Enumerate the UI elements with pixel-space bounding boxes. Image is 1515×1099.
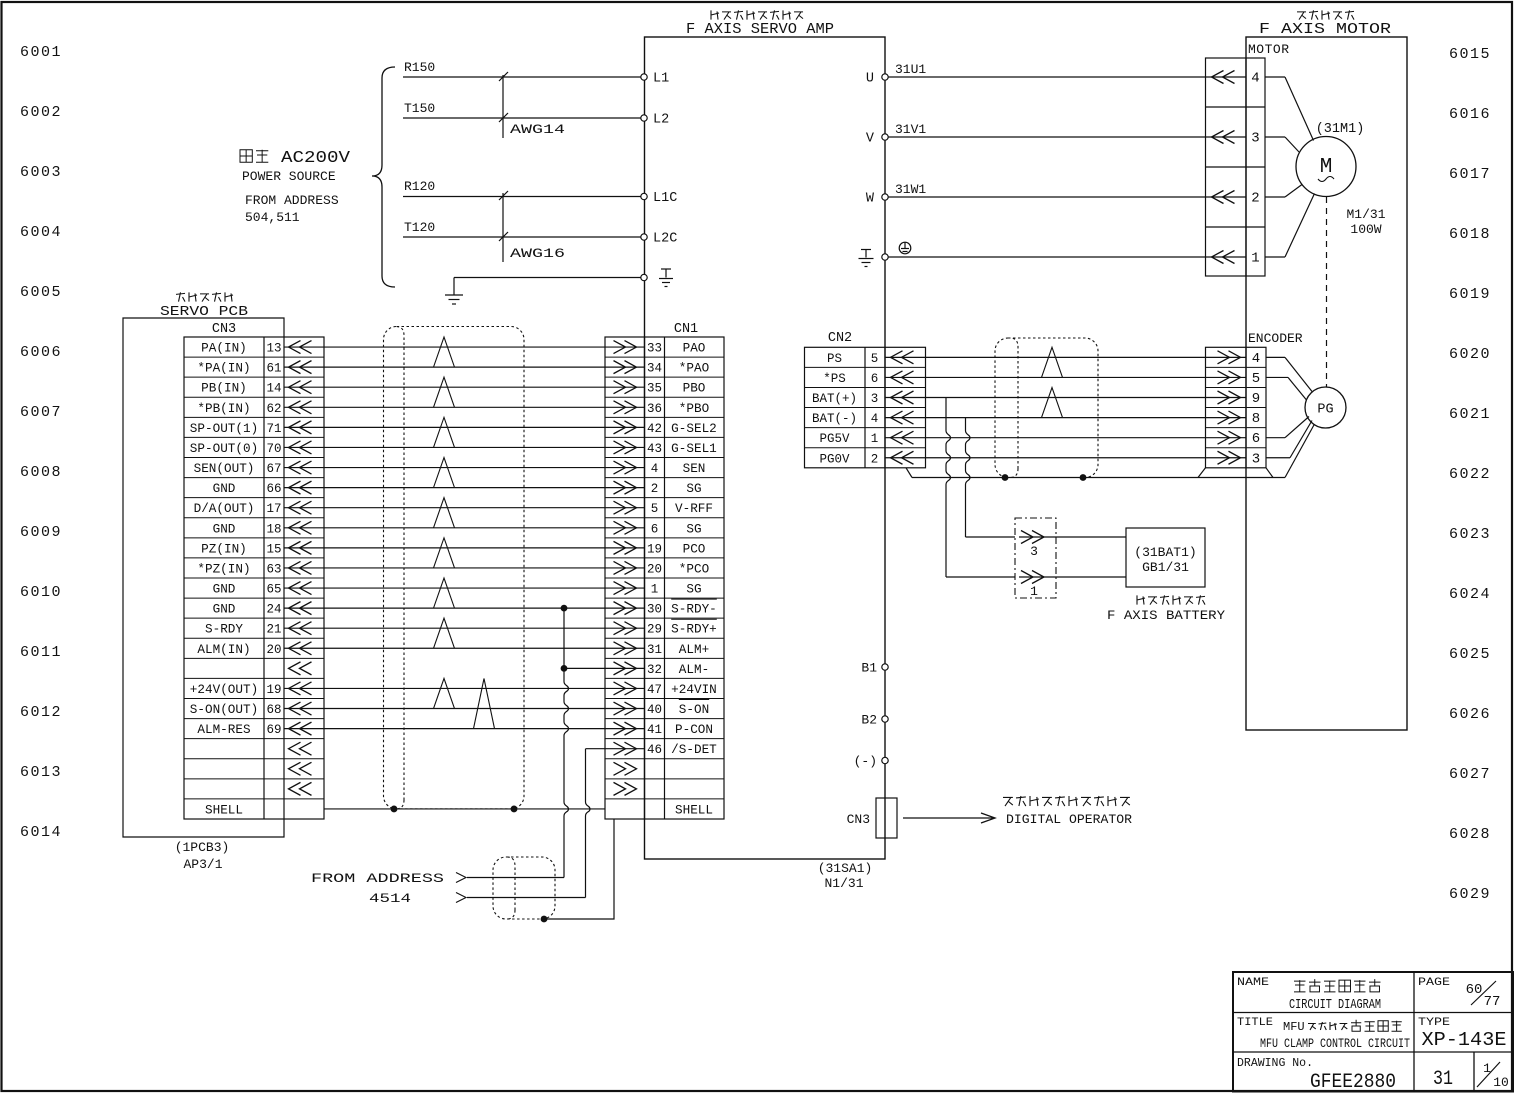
terminal L2 xyxy=(641,113,669,128)
svg-text:6025: 6025 xyxy=(1449,646,1491,663)
svg-text:SEN: SEN xyxy=(683,462,706,476)
motor label xyxy=(1259,21,1391,38)
battery connector box xyxy=(1015,518,1056,598)
svg-text:6003: 6003 xyxy=(20,164,62,181)
svg-text:5: 5 xyxy=(1252,371,1260,387)
svg-text:70: 70 xyxy=(266,442,281,456)
svg-text:PG0V: PG0V xyxy=(819,452,850,466)
svg-text:31: 31 xyxy=(647,643,662,657)
svg-text:GND: GND xyxy=(213,522,236,536)
label PAGE xyxy=(1418,977,1450,989)
svg-text:DRAWING No.: DRAWING No. xyxy=(1237,1056,1313,1070)
label 31M1 xyxy=(1316,122,1365,137)
motor pin 2 label xyxy=(1251,191,1259,207)
svg-text:MFU CLAMP CONTROL CIRCUIT: MFU CLAMP CONTROL CIRCUIT xyxy=(1260,1036,1410,1051)
svg-text:3: 3 xyxy=(871,392,879,406)
motor pin 1 label xyxy=(1251,251,1259,267)
wire *PS to encoder5 xyxy=(885,376,1246,378)
svg-text:33: 33 xyxy=(647,342,662,356)
sheet fraction 1/10 xyxy=(1477,1061,1509,1090)
svg-text:5: 5 xyxy=(871,352,879,366)
svg-text:M: M xyxy=(1320,156,1333,179)
label POWER SOURCE xyxy=(242,169,336,184)
label 31U1 xyxy=(895,62,926,77)
svg-text:BAT(+): BAT(+) xyxy=(812,392,857,406)
svg-text:4514: 4514 xyxy=(369,891,411,906)
svg-text:*PZ(IN): *PZ(IN) xyxy=(197,562,250,576)
cable group AWG16 xyxy=(499,191,508,262)
wire V to motor pin xyxy=(888,136,1246,138)
terminal U xyxy=(866,72,888,87)
terminal V xyxy=(866,132,888,147)
svg-text:SHELL: SHELL xyxy=(675,803,713,817)
svg-text:5: 5 xyxy=(651,502,659,516)
svg-text:(-): (-) xyxy=(854,754,877,769)
svg-text:2: 2 xyxy=(1251,191,1259,207)
node shield right xyxy=(511,806,518,813)
svg-text:6005: 6005 xyxy=(20,284,62,301)
motor connector MOTOR table xyxy=(1206,58,1266,276)
svg-text:XP-143E: XP-143E xyxy=(1422,1029,1507,1051)
svg-text:6021: 6021 xyxy=(1449,406,1491,423)
svg-text:M1/31: M1/31 xyxy=(1346,207,1385,222)
terminal L2C xyxy=(641,232,678,247)
right zone labels 6015-6029 xyxy=(1449,46,1491,903)
svg-text:CN3: CN3 xyxy=(212,322,236,337)
svg-text:ENCODER: ENCODER xyxy=(1248,331,1303,346)
svg-text:AP3/1: AP3/1 xyxy=(183,857,222,872)
svg-text:POWER SOURCE: POWER SOURCE xyxy=(242,169,336,184)
label XP-143E xyxy=(1422,1029,1507,1051)
battery pin1 arrow xyxy=(1021,571,1044,600)
svg-text:6020: 6020 xyxy=(1449,346,1491,363)
svg-text:68: 68 xyxy=(266,703,281,717)
svg-text:4: 4 xyxy=(1252,351,1260,367)
svg-text:L2C: L2C xyxy=(653,232,677,247)
svg-text:6023: 6023 xyxy=(1449,526,1491,543)
svg-text:AWG14: AWG14 xyxy=(510,122,565,137)
svg-text:CIRCUIT DIAGRAM: CIRCUIT DIAGRAM xyxy=(1289,998,1381,1013)
svg-text:SHELL: SHELL xyxy=(205,803,243,817)
encoder pin 9 arrow xyxy=(1218,391,1241,404)
label R150 xyxy=(404,60,435,75)
svg-text:6007: 6007 xyxy=(20,404,62,421)
svg-text:6018: 6018 xyxy=(1449,226,1491,243)
svg-text:L2: L2 xyxy=(653,113,669,128)
svg-text:L1: L1 xyxy=(653,72,669,87)
wire SHELL CN3 to CN1 xyxy=(324,808,605,810)
label DIGITAL OPERATOR xyxy=(1006,812,1132,827)
svg-text:42: 42 xyxy=(647,422,662,436)
svg-text:D/A(OUT): D/A(OUT) xyxy=(194,502,255,516)
label AWG14 xyxy=(510,122,565,137)
svg-text:R120: R120 xyxy=(404,179,435,194)
wire U to motor pin xyxy=(888,76,1246,78)
wire encoder5 to PG xyxy=(1266,377,1307,400)
svg-text:6026: 6026 xyxy=(1449,706,1491,723)
title block frame xyxy=(1233,972,1513,1092)
svg-text:8: 8 xyxy=(1252,411,1260,427)
wires CN3 to CN1 xyxy=(284,347,645,729)
encoder shield flare right xyxy=(1266,468,1273,478)
svg-text:ALM(IN): ALM(IN) xyxy=(197,643,250,657)
label MOTOR xyxy=(1248,42,1290,57)
CN3 arrows xyxy=(289,341,312,796)
CN1 arrows xyxy=(614,341,637,796)
svg-text:SERVO PCB: SERVO PCB xyxy=(160,305,248,320)
servo pcb box xyxy=(123,318,284,837)
svg-text:3: 3 xyxy=(1030,544,1038,559)
wire /S-DET stub xyxy=(586,748,646,750)
svg-text:4: 4 xyxy=(651,462,659,476)
svg-text:17: 17 xyxy=(266,502,281,516)
svg-text:V-RFF: V-RFF xyxy=(675,502,713,516)
svg-text:PS: PS xyxy=(827,352,842,366)
servo amp U1 box xyxy=(645,37,886,859)
motor pin 4 label xyxy=(1251,71,1259,87)
label ENCODER xyxy=(1248,331,1303,346)
protective earth symbol xyxy=(899,242,911,254)
svg-text:U: U xyxy=(866,72,874,87)
connector CN3 operator xyxy=(876,798,897,838)
wire ALM- stub xyxy=(564,667,645,669)
svg-text:PA(IN): PA(IN) xyxy=(201,342,247,356)
twisted pair +24V/S-ON xyxy=(434,678,455,708)
svg-text:F AXIS SERVO AMP: F AXIS SERVO AMP xyxy=(686,21,834,38)
svg-text:GND: GND xyxy=(213,583,236,597)
svg-text:PZ(IN): PZ(IN) xyxy=(201,542,247,556)
svg-text:19: 19 xyxy=(266,683,281,697)
svg-text:10: 10 xyxy=(1493,1075,1509,1090)
svg-text:TITLE: TITLE xyxy=(1237,1017,1273,1029)
encoder pin 8 arrow xyxy=(1218,411,1241,424)
wire battery pin3 xyxy=(1019,536,1126,538)
svg-text:43: 43 xyxy=(647,442,662,456)
motor pin 2 arrow xyxy=(1212,191,1235,204)
svg-text:15: 15 xyxy=(266,542,281,556)
svg-text:*PAO: *PAO xyxy=(679,362,709,376)
svg-text:S-RDY+: S-RDY+ xyxy=(671,623,717,637)
label 31W1 xyxy=(895,182,926,197)
wire BAT- to battery pin3 xyxy=(966,418,1016,537)
svg-text:V: V xyxy=(866,132,875,147)
CN2 arrows xyxy=(891,351,914,464)
servo pcb label JP xyxy=(176,292,233,301)
svg-text:MOTOR: MOTOR xyxy=(1248,42,1290,57)
arrow to digital operator xyxy=(903,813,995,823)
svg-text:DIGITAL OPERATOR: DIGITAL OPERATOR xyxy=(1006,812,1132,827)
wire PG5V to encoder6 xyxy=(885,437,1246,439)
wire motor pin3 to M xyxy=(1265,137,1299,152)
wire BAT+ to encoder9 xyxy=(885,397,1246,399)
motor M1 circle xyxy=(1296,137,1356,197)
svg-text:GFEE2880: GFEE2880 xyxy=(1310,1071,1396,1094)
svg-text:6028: 6028 xyxy=(1449,826,1491,843)
svg-text:BAT(-): BAT(-) xyxy=(812,412,857,426)
svg-text:PCO: PCO xyxy=(683,542,706,556)
connector ENCODER table xyxy=(1206,347,1267,467)
svg-text:B1: B1 xyxy=(861,661,877,676)
svg-text:41: 41 xyxy=(647,723,662,737)
label sheet 31 xyxy=(1433,1068,1453,1091)
svg-text:6010: 6010 xyxy=(20,584,62,601)
wire ground to amp xyxy=(454,277,641,279)
svg-text:67: 67 xyxy=(266,462,281,476)
motor box xyxy=(1246,37,1407,730)
ground symbol inside amp xyxy=(859,250,874,267)
svg-text:ALM-RES: ALM-RES xyxy=(197,723,250,737)
svg-text:6016: 6016 xyxy=(1449,106,1491,123)
svg-text:6022: 6022 xyxy=(1449,466,1491,483)
label DRAWING No. xyxy=(1237,1056,1313,1070)
svg-text:6: 6 xyxy=(651,522,659,536)
left zone labels 6001-6014 xyxy=(20,44,62,841)
wire from-address shield drain xyxy=(544,819,614,919)
svg-text:34: 34 xyxy=(647,362,662,376)
svg-text:6001: 6001 xyxy=(20,44,62,61)
svg-text:W: W xyxy=(866,192,875,207)
svg-text:6014: 6014 xyxy=(20,824,62,841)
label AWG16 xyxy=(510,246,565,261)
svg-text:6: 6 xyxy=(871,372,879,386)
svg-text:*PCO: *PCO xyxy=(679,562,709,576)
svg-text:504,511: 504,511 xyxy=(245,210,300,225)
svg-text:1: 1 xyxy=(651,583,659,597)
svg-text:29: 29 xyxy=(647,623,662,637)
terminal W xyxy=(866,192,888,207)
svg-text:(31M1): (31M1) xyxy=(1316,122,1365,137)
wire vertical alarm branch xyxy=(564,608,569,877)
svg-text:+24V(OUT): +24V(OUT) xyxy=(190,683,258,697)
terminal L1 xyxy=(641,72,669,87)
svg-text:21: 21 xyxy=(266,623,281,637)
encoder pin 4 label xyxy=(1252,351,1260,367)
motor pin 3 arrow xyxy=(1212,131,1235,144)
label CIRCUIT DIAGRAM xyxy=(1289,998,1381,1013)
svg-text:F AXIS MOTOR: F AXIS MOTOR xyxy=(1259,21,1391,38)
digital operator label JP xyxy=(1003,796,1130,806)
label 1PCB3 AP3/1 xyxy=(175,840,230,872)
servo pcb label xyxy=(160,305,248,320)
terminal B1 xyxy=(861,661,888,676)
wire BAT- to encoder8 xyxy=(885,417,1246,419)
battery pin3 arrow xyxy=(1021,531,1044,560)
wire PE to motor pin xyxy=(888,256,1246,258)
wire motor pin2 to M xyxy=(1265,185,1302,198)
encoder pin 6 arrow xyxy=(1218,431,1241,444)
svg-text:3: 3 xyxy=(1251,131,1259,147)
servo amp label xyxy=(686,21,834,38)
svg-text:6009: 6009 xyxy=(20,524,62,541)
svg-text:4: 4 xyxy=(871,412,879,426)
svg-text:6015: 6015 xyxy=(1449,46,1491,63)
encoder pin 8 label xyxy=(1252,411,1260,427)
svg-text:6011: 6011 xyxy=(20,644,62,661)
svg-text:FROM ADDRESS: FROM ADDRESS xyxy=(245,193,339,208)
node from-address shield xyxy=(541,916,548,923)
encoder pin 6 label xyxy=(1252,431,1260,447)
motor label JP xyxy=(1297,10,1354,19)
svg-text:NAME: NAME xyxy=(1237,977,1269,989)
svg-text:30: 30 xyxy=(647,603,662,617)
svg-text:FROM ADDRESS: FROM ADDRESS xyxy=(311,871,444,886)
svg-text:6029: 6029 xyxy=(1449,886,1491,903)
svg-text:SG: SG xyxy=(686,482,701,496)
svg-text:31W1: 31W1 xyxy=(895,182,926,197)
svg-text:61: 61 xyxy=(266,362,281,376)
svg-text:SP-OUT(0): SP-OUT(0) xyxy=(190,442,258,456)
svg-text:36: 36 xyxy=(647,402,662,416)
wire encoder cable shield xyxy=(912,477,1285,479)
svg-text:GND: GND xyxy=(213,603,236,617)
arrow from-address 1 xyxy=(456,873,466,883)
svg-text:32: 32 xyxy=(647,663,662,677)
wire encoder4 to PG xyxy=(1266,357,1312,391)
svg-text:GB1/31: GB1/31 xyxy=(1142,560,1189,575)
svg-text:9: 9 xyxy=(1252,391,1260,407)
wire PGOV to encoder3 xyxy=(885,457,1246,459)
title JP xyxy=(1283,1020,1402,1034)
label CN1 xyxy=(674,322,698,337)
cable group AWG14 xyxy=(499,72,508,138)
svg-text:SG: SG xyxy=(686,522,701,536)
svg-text:PG: PG xyxy=(1317,403,1333,418)
svg-text:31: 31 xyxy=(1433,1068,1453,1091)
svg-text:35: 35 xyxy=(647,382,662,396)
svg-text:PAO: PAO xyxy=(683,342,706,356)
wire encoder6 to PG xyxy=(1266,417,1309,438)
svg-text:G-SEL2: G-SEL2 xyxy=(671,422,717,436)
svg-text:14: 14 xyxy=(266,382,281,396)
svg-text:/S-DET: /S-DET xyxy=(671,743,717,757)
motor pin 4 arrow xyxy=(1212,71,1235,84)
CN2 pin labels xyxy=(812,352,878,466)
svg-text:18: 18 xyxy=(266,522,281,536)
label M1/31 100W xyxy=(1346,207,1385,237)
motor pin 3 label xyxy=(1251,131,1259,147)
svg-text:L1C: L1C xyxy=(653,191,677,206)
label 31SA1 N1/31 xyxy=(818,861,873,891)
wire T150 to L2 xyxy=(403,117,641,119)
arrow from-address 2 xyxy=(456,893,466,903)
twisted pair PS/*PS xyxy=(1042,347,1063,377)
motor pin 1 arrow xyxy=(1212,251,1235,264)
wire shield to PG xyxy=(1285,424,1315,478)
cable shield from-address xyxy=(493,857,555,919)
svg-text:AWG16: AWG16 xyxy=(510,246,565,261)
svg-text:*PA(IN): *PA(IN) xyxy=(197,362,250,376)
svg-text:60: 60 xyxy=(1466,982,1483,998)
svg-text:PB(IN): PB(IN) xyxy=(201,382,247,396)
svg-text:1: 1 xyxy=(1251,251,1259,267)
encoder pin 3 arrow xyxy=(1218,451,1241,464)
svg-text:40: 40 xyxy=(647,703,662,717)
svg-text:20: 20 xyxy=(647,562,662,576)
battery GB1 box xyxy=(1126,528,1205,587)
encoder pin 5 arrow xyxy=(1218,371,1241,384)
wire T120 to L2C xyxy=(403,236,641,238)
svg-text:71: 71 xyxy=(266,422,281,436)
svg-text:3: 3 xyxy=(1252,451,1260,467)
svg-text:CN3: CN3 xyxy=(847,812,870,827)
svg-text:P-CON: P-CON xyxy=(675,723,713,737)
CN2 shield flare xyxy=(906,468,912,478)
dashed link motor to PG xyxy=(1326,197,1328,387)
svg-text:ALM-: ALM- xyxy=(679,663,709,677)
terminal B2 xyxy=(861,713,888,728)
svg-text:F AXIS BATTERY: F AXIS BATTERY xyxy=(1107,608,1225,623)
svg-text:6008: 6008 xyxy=(20,464,62,481)
connector CN3 table xyxy=(184,337,324,819)
page fraction 60/77 xyxy=(1466,981,1501,1010)
wire R150 to L1 xyxy=(403,76,641,78)
label CN3 operator xyxy=(847,812,870,827)
twisted pair S-ON/ALM-RES xyxy=(474,678,495,728)
encoder pin 4 arrow xyxy=(1218,351,1241,364)
svg-text:6027: 6027 xyxy=(1449,766,1491,783)
svg-text:100W: 100W xyxy=(1350,222,1381,237)
svg-text:S-ON: S-ON xyxy=(679,703,709,717)
wire vertical S-DET branch xyxy=(586,749,591,898)
wire BAT+ to battery pin1 xyxy=(946,398,1015,577)
svg-text:(31BAT1): (31BAT1) xyxy=(1134,545,1196,560)
svg-text:GND: GND xyxy=(213,482,236,496)
svg-text:1: 1 xyxy=(871,432,879,446)
svg-text:S-RDY: S-RDY xyxy=(205,623,243,637)
svg-text:T150: T150 xyxy=(404,101,435,116)
label power JP xyxy=(240,150,268,163)
svg-text:PAGE: PAGE xyxy=(1418,977,1450,989)
label FROM ADDRESS 4514 xyxy=(311,871,444,906)
svg-text:6: 6 xyxy=(1252,431,1260,447)
label NAME xyxy=(1237,977,1269,989)
label 31BAT1 GB1/31 xyxy=(1134,545,1196,575)
servo amp label JP xyxy=(711,10,803,19)
svg-text:6002: 6002 xyxy=(20,104,62,121)
node shield enc right xyxy=(1080,474,1087,481)
svg-text:SEN(OUT): SEN(OUT) xyxy=(194,462,255,476)
label AC200V xyxy=(281,149,351,168)
label CN3 xyxy=(212,322,236,337)
wire W to motor pin xyxy=(888,196,1246,198)
label CN2 xyxy=(828,331,852,346)
node S-RDY- junction xyxy=(561,605,568,612)
label T150 xyxy=(404,101,435,116)
svg-text:31U1: 31U1 xyxy=(895,62,926,77)
svg-text:CN2: CN2 xyxy=(828,331,852,346)
connector CN1 table xyxy=(605,337,724,819)
svg-text:*PBO: *PBO xyxy=(679,402,709,416)
encoder PG circle xyxy=(1305,387,1346,428)
cable shield CN3-CN1 xyxy=(384,327,525,809)
svg-text:47: 47 xyxy=(647,683,662,697)
wire battery pin1 xyxy=(1019,576,1126,578)
svg-text:46: 46 xyxy=(647,743,662,757)
brace power source xyxy=(372,67,395,287)
encoder pin 3 label xyxy=(1252,451,1260,467)
svg-text:62: 62 xyxy=(266,402,281,416)
twisted pair BAT xyxy=(1042,388,1063,418)
node ALM- junction xyxy=(561,665,568,672)
svg-text:77: 77 xyxy=(1484,994,1501,1010)
svg-text:MFU: MFU xyxy=(1283,1020,1305,1034)
svg-text:6012: 6012 xyxy=(20,704,62,721)
svg-text:31V1: 31V1 xyxy=(895,122,926,137)
wire from-address 2 xyxy=(467,897,586,899)
wire PS to encoder4 xyxy=(885,356,1246,358)
wire R120 to L1C xyxy=(403,196,641,198)
svg-text:(1PCB3): (1PCB3) xyxy=(175,840,230,855)
